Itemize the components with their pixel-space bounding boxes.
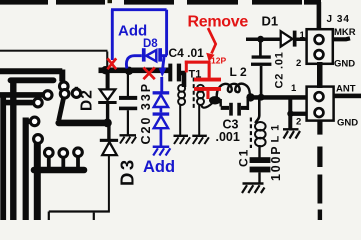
wire T1 secondary to L2 node (202, 101, 215, 108)
red tap wire horizontal (185, 61, 211, 64)
capacitor C4 plate 1 (168, 64, 172, 82)
wire bottom stub vertical (93, 213, 95, 220)
shield dashed line segment 1 (0, 0, 48, 5)
wire D3 anode down (108, 155, 110, 210)
transformer T1 secondary coil (197, 85, 204, 105)
svg-text:L 2: L 2 (230, 65, 247, 79)
diode D3 (102, 142, 117, 155)
node junction dot C2-ANT (258, 94, 265, 101)
svg-text:Add: Add (143, 158, 175, 176)
capacitor C1 plate 2 (250, 167, 271, 173)
pad V3 (30, 117, 39, 126)
svg-text:C1: C1 (237, 148, 251, 167)
svg-text:100P: 100P (269, 145, 283, 181)
wire blue below node (160, 77, 163, 92)
capacitor C20 plate 1 (119, 96, 137, 100)
PCB trace B2 horizontal (0, 92, 43, 98)
pad bottom row 2 (59, 149, 68, 158)
wire T1 secondary to ground (198, 105, 200, 136)
wire C4 to T1 (181, 73, 184, 87)
svg-text:.001: .001 (216, 130, 240, 144)
capacitor C20 plate 2 (119, 107, 137, 111)
wire main horizontal node A (99, 68, 171, 74)
pad P3 (72, 89, 80, 97)
capacitor C1 plate 1 (250, 157, 271, 163)
svg-text:D3: D3 (117, 157, 138, 186)
wire D1 cathode to J34 (297, 38, 308, 42)
shield dashed line segment 3 (124, 0, 174, 5)
svg-text:C2 .01: C2 .01 (274, 51, 286, 88)
thin wire upper left (0, 50, 108, 52)
inductor L1 core dashed (250, 118, 252, 149)
ground C20 (120, 135, 137, 143)
svg-text:C4 .01: C4 .01 (169, 46, 205, 60)
svg-text:12P: 12P (211, 56, 226, 66)
wire C3 left drop (219, 99, 221, 107)
ground T1 primary (174, 136, 191, 144)
diode D2 (100, 89, 116, 100)
diode D1 cathode bar (293, 31, 297, 47)
svg-text:2: 2 (296, 117, 301, 128)
ground C1 (242, 184, 265, 194)
capacitor C3 plate 1 (229, 103, 233, 116)
node junction dot D2-D3 (103, 119, 112, 128)
PCB trace B horizontal (11, 77, 54, 83)
diode D8 cathode bar (142, 48, 146, 61)
svg-text:2: 2 (296, 58, 301, 69)
cable shield dash 3 (318, 175, 323, 204)
wire blue arrow down (163, 57, 164, 69)
wire ANT main (250, 95, 307, 100)
transformer T1 primary coil (178, 85, 185, 105)
pad P2 (60, 90, 69, 99)
PCB trace A horizontal (0, 68, 62, 74)
wire T1 primary to ground (179, 105, 181, 136)
diode D8 anode bar (158, 48, 162, 61)
cable shield dash 2 (317, 147, 322, 168)
pad stem 1 (47, 157, 51, 170)
svg-text:C20 33P: C20 33P (139, 82, 153, 145)
svg-text:J 34: J 34 (327, 14, 350, 25)
wire added diodes to ground (160, 128, 163, 146)
node junction dot D2 top (101, 66, 109, 74)
svg-text:MKR: MKR (334, 27, 356, 38)
capacitor C3 plate 2 (237, 103, 241, 116)
pad C (34, 98, 43, 107)
shield dashed line corner segment (304, 0, 321, 5)
wire C2 top (259, 40, 262, 56)
pad stem 2 (61, 157, 65, 169)
shield dashed line segment 5 (252, 0, 302, 5)
removed capacitor 12P plate 2 (194, 87, 221, 91)
connector J34 pin GND1 circle (315, 50, 324, 59)
shield dashed line segment 2 (56, 0, 105, 5)
red arrow (208, 28, 216, 54)
ground J34 pin2 (283, 129, 300, 138)
connector J34 pin MKR circle (315, 35, 324, 44)
svg-text:D2: D2 (79, 89, 96, 111)
cable shield dash 4 (318, 210, 322, 221)
wire D1 anode (246, 38, 281, 42)
PCB diagonal trace (59, 98, 64, 121)
pad V4 (34, 135, 43, 144)
pad B2 (43, 91, 52, 100)
pad stem 3 (76, 156, 80, 169)
red arrowhead (206, 53, 214, 62)
wire D8 link to box edge (162, 54, 167, 57)
diode D1 (281, 31, 293, 46)
cable shield dash 1 (317, 121, 322, 135)
PCB trace C horizontal (4, 100, 33, 106)
pad bottom row 1 (45, 148, 54, 157)
node L2 left junction (209, 96, 221, 104)
capacitor C2 plate 1 (252, 55, 271, 58)
red X mark 1 (107, 58, 116, 69)
svg-text:Add: Add (118, 23, 147, 40)
connector J34 pin ANT circle (315, 92, 324, 101)
wire C20 bottom (127, 110, 129, 134)
svg-text:L 1: L 1 (270, 124, 282, 143)
svg-text:GND: GND (337, 118, 358, 129)
wire bottom left vertical (48, 212, 50, 221)
PCB horizontal trace to D2 junction (59, 120, 104, 127)
pad bottom row 3 (74, 148, 83, 157)
wire D2 to junction (106, 104, 109, 120)
transformer T1 core dashed (193, 78, 195, 111)
red wire 12P bottom (206, 91, 209, 99)
inductor L2 (217, 84, 250, 100)
red tap wire vertical (208, 63, 211, 78)
blue add box top edge (111, 8, 167, 11)
svg-text:D1: D1 (262, 14, 279, 29)
PCB vertical trace V2 (10, 79, 16, 220)
PCB bottom horizontal trace (34, 167, 84, 174)
inductor L1 (255, 122, 266, 146)
blue arrowhead (159, 68, 167, 77)
wire L1 top (255, 99, 259, 123)
wire shield corner down to J34 (317, 2, 322, 30)
node junction dot GND tee (287, 111, 293, 117)
added diode B (154, 116, 168, 128)
added diode A (154, 95, 168, 107)
capacitor C2 plate 2 (251, 63, 271, 66)
connector J34 pin GND2 circle (315, 108, 324, 117)
svg-text:1: 1 (291, 83, 297, 94)
svg-text:GND: GND (334, 59, 355, 70)
red tap stub left (185, 61, 188, 73)
wire D8 arc from node (126, 56, 141, 69)
ground blue added (153, 147, 171, 156)
PCB trace A corner down (59, 70, 65, 82)
node L2 right junction (246, 93, 254, 101)
wire MKR stub (333, 38, 350, 39)
pad A (60, 82, 69, 91)
PCB vertical trace V4 (34, 142, 41, 220)
wire C3 left stub (221, 106, 229, 110)
added diode B cathode bar (153, 112, 170, 115)
diode D3 cathode bar (100, 139, 118, 142)
connector J34 block 2 (307, 87, 334, 121)
red X mark 2 (143, 67, 154, 79)
wire J34 interblock (317, 62, 323, 88)
svg-text:ANT: ANT (336, 84, 356, 95)
blue add box right edge (165, 10, 168, 56)
pad P3 stub (75, 87, 78, 90)
capacitor C4 plate 2 (177, 64, 181, 82)
wire thin vertical to main node (106, 52, 108, 69)
connector J34 block 1 (307, 29, 333, 64)
wire L1 to C1 (258, 145, 260, 158)
svg-text:1: 1 (300, 30, 306, 41)
removed capacitor 12P plate 1 (194, 78, 221, 82)
svg-text:Remove: Remove (188, 14, 249, 31)
wire C20 top (127, 73, 129, 96)
ground T1 secondary (192, 136, 209, 144)
wire bottom horizontal (49, 210, 110, 212)
added diode A cathode bar (153, 91, 170, 94)
wire junction to D3 (107, 125, 110, 139)
PCB vertical trace V1 (0, 94, 6, 221)
diode D8 (146, 50, 156, 61)
wire C3 right up (247, 98, 250, 110)
node junction dot D1-C2 (257, 36, 264, 43)
wire C1 to ground (258, 172, 260, 183)
wire GND tee to J34 pin2 (290, 112, 307, 116)
PCB trace V3 stub (25, 119, 30, 124)
wire between added diodes (160, 107, 163, 112)
wire D2 anode (106, 72, 110, 90)
node junction dot C20 tap (125, 67, 133, 75)
wire C3 right stub (241, 106, 248, 110)
wire ANT stub (334, 94, 361, 99)
blue add box left edge (111, 10, 114, 60)
wire C2 bottom (260, 66, 263, 96)
PCB vertical trace V3 (23, 118, 29, 221)
shield dashed line segment 4 (187, 0, 238, 5)
wire GND drop from ANT wire (288, 98, 292, 129)
diode D2 cathode bar (98, 101, 116, 104)
shield dashed line dot (108, 0, 113, 3)
